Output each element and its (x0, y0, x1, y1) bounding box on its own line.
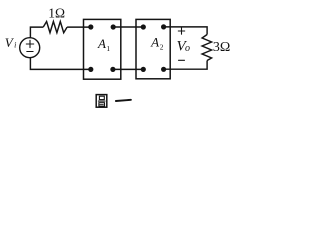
source Vi plus sign (26, 40, 33, 47)
label plus (output polarity) (178, 28, 184, 34)
svg-text:A: A (97, 36, 106, 51)
svg-text:A: A (150, 35, 159, 50)
wire: R1 to A1 top-left terminal (67, 26, 91, 28)
source Vi minus sign (27, 51, 33, 53)
label minus (output polarity) (179, 59, 185, 61)
two-port network A2 box (136, 19, 170, 78)
wire: source top to resistor R1 (30, 27, 43, 38)
terminal dot A1 top-left (88, 24, 93, 29)
label Vo (177, 38, 191, 54)
svg-text:o: o (185, 43, 190, 54)
svg-text:3Ω: 3Ω (213, 40, 230, 55)
two-port network A1 box (84, 19, 121, 79)
wire: source bottom to A1 bottom-left terminal (30, 57, 90, 69)
svg-text:1Ω: 1Ω (48, 6, 65, 21)
svg-text:i: i (14, 41, 16, 50)
wire: resistor R2 bottom to A2 bottom-right (164, 61, 208, 70)
svg-text:1: 1 (106, 44, 110, 53)
wire: A2 top-right to resistor R2 top (164, 27, 208, 35)
caption: character YI (one) (116, 100, 131, 101)
resistor R1 (1 ohm) (43, 22, 67, 33)
terminal dot A1 bottom-right (110, 67, 115, 72)
terminal dot A1 top-right (111, 24, 116, 29)
label A1 (97, 36, 110, 53)
wire: A1 to A2 top (113, 26, 143, 28)
resistor R2 (3 ohm) (202, 35, 212, 61)
terminal dot A1 bottom-left (88, 67, 93, 72)
label Vi (5, 35, 17, 50)
wire: A1 to A2 bottom (113, 68, 143, 70)
label A2 (150, 35, 164, 52)
caption: character TU (figure) (96, 95, 107, 108)
svg-text:2: 2 (160, 43, 164, 52)
terminal dot A2 bottom-right (161, 67, 166, 72)
source Vi circle (20, 38, 40, 58)
terminal dot A2 top-left (141, 24, 146, 29)
terminal dot A2 bottom-left (141, 67, 146, 72)
terminal dot A2 top-right (161, 24, 166, 29)
